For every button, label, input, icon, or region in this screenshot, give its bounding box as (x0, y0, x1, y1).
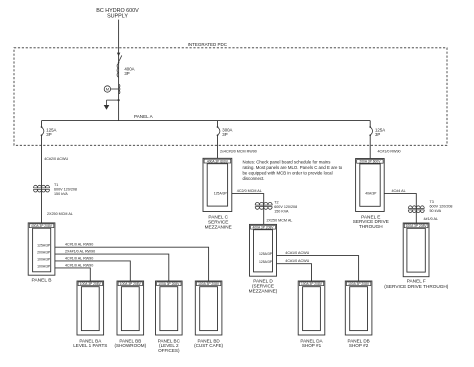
wire bus to breaker B (41, 121, 43, 127)
svg-text:4C2/0 MCM AL: 4C2/0 MCM AL (237, 189, 262, 193)
svg-text:PANEL B: PANEL B (31, 277, 51, 283)
svg-text:T1: T1 (54, 183, 58, 187)
label 125A 3P left (46, 128, 56, 137)
svg-text:4C#4 AL: 4C#4 AL (392, 189, 406, 193)
label PANEL D (SERVICE MEZZANINE) (249, 279, 278, 294)
panel B (28, 223, 55, 275)
svg-text:PANEL DA: PANEL DA (300, 338, 323, 343)
svg-text:125A/3P: 125A/3P (37, 244, 51, 248)
svg-text:100A 3P 208V: 100A 3P 208V (120, 282, 142, 286)
svg-text:PANEL BD: PANEL BD (197, 338, 220, 343)
label PANEL DA SHOP #1 (300, 338, 323, 348)
svg-text:600V 120/208: 600V 120/208 (54, 187, 77, 191)
svg-text:disconnect.: disconnect. (243, 176, 265, 181)
svg-text:SERVICE DRIVE: SERVICE DRIVE (353, 219, 389, 224)
svg-text:PANEL D: PANEL D (253, 279, 273, 284)
svg-text:2X250 MCM AL: 2X250 MCM AL (267, 218, 293, 222)
label PANEL BC (LEVEL 2 OFFICES) (158, 338, 181, 353)
svg-text:125A/3P: 125A/3P (214, 191, 228, 195)
panel BA (77, 281, 104, 335)
svg-text:400A 3P 600V: 400A 3P 600V (207, 159, 229, 163)
svg-text:200A 3P 600V: 200A 3P 600V (359, 160, 381, 164)
panel F (403, 223, 429, 277)
svg-text:2X4#1/0 AL RW90: 2X4#1/0 AL RW90 (65, 250, 95, 254)
svg-text:PANEL C: PANEL C (208, 214, 228, 219)
svg-text:rating. Most panels are MLO. P: rating. Most panels are MLO. Panels C an… (243, 165, 343, 170)
svg-text:2X250 MCM AL: 2X250 MCM AL (47, 212, 73, 216)
bus PANEL A (42, 120, 371, 122)
wire panel B to panel BB (55, 261, 130, 281)
transformer T1 (34, 185, 50, 192)
svg-text:OFFICES): OFFICES) (158, 348, 180, 353)
wire bus to breaker C (217, 121, 219, 127)
svg-text:SHOP #1: SHOP #1 (302, 343, 322, 348)
panel BC (156, 281, 183, 335)
breaker 300A (217, 126, 220, 136)
svg-text:150 kVA: 150 kVA (54, 192, 68, 196)
label T1 600V 120/208 150 kVA (54, 183, 77, 196)
breaker 400A coil (117, 64, 119, 78)
label 400A 3P (124, 67, 134, 76)
wire panel B to panel BD (55, 247, 209, 281)
label PANEL BA LEVEL 1 PARTS (73, 338, 107, 348)
junction (118, 99, 120, 101)
panel DB (345, 281, 372, 335)
wire panel D to panel DA (277, 264, 312, 281)
wire breaker to panel E (369, 135, 371, 158)
label PANEL C SERVICE MEZZANINE (205, 214, 232, 229)
transformer T2 (255, 202, 272, 209)
label PANEL DB SHOP #2 (347, 338, 369, 348)
svg-text:100A/3P: 100A/3P (37, 265, 51, 269)
svg-text:4C#2/0 ACWU: 4C#2/0 ACWU (44, 157, 68, 161)
disconnect switch S1 (118, 55, 122, 63)
svg-text:3P: 3P (375, 132, 380, 137)
svg-text:SHOP #2: SHOP #2 (349, 343, 369, 348)
svg-text:SERVICE: SERVICE (208, 220, 229, 225)
svg-text:THROUGH: THROUGH (359, 224, 383, 229)
wire panel B to panel BC (55, 254, 169, 281)
panel D (250, 224, 277, 276)
panel DA (298, 281, 325, 335)
svg-text:(LEVEL 2: (LEVEL 2 (159, 343, 179, 348)
svg-text:LEVEL 1 PARTS: LEVEL 1 PARTS (73, 343, 107, 348)
svg-text:3P: 3P (222, 132, 227, 137)
svg-text:100A 3P 208V: 100A 3P 208V (406, 224, 428, 228)
svg-text:4#1/0 AL: 4#1/0 AL (424, 217, 439, 221)
svg-text:MEZZANINE): MEZZANINE) (249, 288, 278, 293)
node BC HYDRO 600V SUPPLY (96, 8, 139, 19)
svg-text:T2: T2 (274, 201, 278, 205)
svg-text:T3: T3 (430, 200, 434, 204)
svg-text:100A 3P 208V: 100A 3P 208V (158, 282, 180, 286)
svg-text:Notes: Check panel board sched: Notes: Check panel board schedule for ma… (243, 159, 332, 164)
svg-text:(SERVICE: (SERVICE (252, 284, 274, 289)
svg-text:200A/3P: 200A/3P (37, 251, 51, 255)
svg-text:600V 120/208: 600V 120/208 (274, 205, 297, 209)
svg-text:M: M (106, 87, 109, 92)
label PANEL F (SERVICE DRIVE THROUGH) (384, 279, 449, 289)
svg-text:2x4C#3/0 MCM RW90: 2x4C#3/0 MCM RW90 (220, 150, 257, 154)
svg-text:600V 120/208: 600V 120/208 (430, 205, 453, 209)
svg-text:(CUST CAFE): (CUST CAFE) (194, 343, 223, 348)
meter M (104, 86, 118, 92)
svg-text:50 kVA: 50 kVA (430, 209, 442, 213)
svg-text:100A 3P 208V: 100A 3P 208V (80, 282, 102, 286)
svg-text:PANEL E: PANEL E (361, 214, 380, 219)
svg-text:400A 3P 208V: 400A 3P 208V (31, 224, 53, 228)
label T3 600V 120/208 50 kVA (430, 200, 453, 213)
label PANEL BB (SHOWROOM) (114, 338, 146, 348)
svg-text:PANEL A: PANEL A (134, 114, 154, 119)
svg-text:4C#1/0 AL RW90: 4C#1/0 AL RW90 (65, 263, 93, 267)
enclosure INTEGRATED PDC (14, 48, 447, 146)
svg-text:100A 3P 208V: 100A 3P 208V (198, 282, 220, 286)
label PANEL E SERVICE DRIVE THROUGH (353, 214, 389, 229)
wire supply feeder (118, 20, 120, 121)
svg-text:be equipped with MCB in order: be equipped with MCB in order to provide… (243, 171, 333, 176)
svg-text:4C#1/0 ACWU: 4C#1/0 ACWU (285, 251, 309, 255)
ground (104, 100, 119, 110)
label PANEL BD (CUST CAFE) (194, 338, 223, 348)
svg-text:INTEGRATED PDC: INTEGRATED PDC (188, 42, 228, 47)
panel BD (195, 281, 222, 335)
panel C (203, 158, 232, 211)
svg-text:PANEL F: PANEL F (407, 279, 426, 284)
svg-text:SUPPLY: SUPPLY (107, 13, 128, 19)
flow arrow (117, 53, 120, 57)
notes (243, 159, 343, 181)
svg-text:125A/3P: 125A/3P (259, 252, 273, 256)
svg-text:PANEL BA: PANEL BA (79, 338, 102, 343)
svg-text:PANEL BB: PANEL BB (119, 338, 141, 343)
panel E (356, 159, 385, 212)
svg-text:100A 3P 208V: 100A 3P 208V (348, 282, 370, 286)
breaker 125A right (369, 126, 372, 136)
breaker 125A left (41, 126, 44, 136)
svg-text:MEZZANINE: MEZZANINE (205, 225, 232, 230)
svg-text:PANEL BC: PANEL BC (158, 338, 181, 343)
svg-text:PANEL DB: PANEL DB (347, 338, 369, 343)
svg-text:(SHOWROOM): (SHOWROOM) (114, 343, 146, 348)
svg-text:100A 3P 208V: 100A 3P 208V (301, 282, 323, 286)
label 300A 3P (222, 128, 232, 137)
svg-text:150 KVA: 150 KVA (274, 209, 289, 213)
wire panel C to T2 (232, 194, 264, 225)
svg-text:(SERVICE DRIVE THROUGH): (SERVICE DRIVE THROUGH) (384, 284, 449, 289)
svg-text:400A 3P 208V: 400A 3P 208V (252, 226, 274, 230)
CT coil (119, 84, 120, 93)
wire panel B to panel BA (55, 268, 90, 281)
wire breaker to panel B (41, 135, 43, 223)
wire bus to breaker E (369, 121, 371, 127)
svg-text:4C#1/0 AL RW90: 4C#1/0 AL RW90 (65, 256, 93, 260)
panel BB (117, 281, 144, 335)
svg-text:4C#1/0 ACWU: 4C#1/0 ACWU (285, 259, 309, 263)
svg-text:40A/3P: 40A/3P (365, 191, 377, 195)
svg-text:125A/3P: 125A/3P (259, 260, 273, 264)
svg-text:4C#1/0 RW90: 4C#1/0 RW90 (378, 150, 401, 154)
svg-text:4C#1/0 AL RW90: 4C#1/0 AL RW90 (65, 243, 93, 247)
svg-text:100A/3P: 100A/3P (37, 258, 51, 262)
wire panel D to panel DB (277, 256, 359, 281)
wire breaker to panel C (217, 135, 219, 158)
wire panel E to T3 (384, 194, 416, 223)
svg-text:3P: 3P (46, 132, 51, 137)
label 125A 3P right (375, 128, 385, 137)
transformer T3 (408, 206, 424, 213)
svg-text:3P: 3P (124, 71, 129, 76)
label T2 600V 120/208 150 KVA (274, 201, 297, 214)
